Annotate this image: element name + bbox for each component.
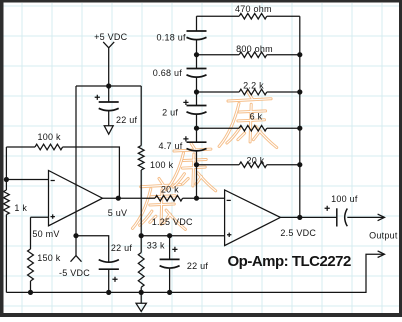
svg-text:Output: Output [369, 231, 398, 241]
capacitor C7 4.7uf [187, 141, 207, 143]
U2 plus label [227, 233, 231, 237]
node U1 output [116, 196, 121, 201]
wire ladder right column [299, 16, 301, 217]
node row 800ohm left [194, 52, 199, 57]
output arrow head (signal) [378, 214, 385, 221]
resistor R6 20k (interstage) [155, 195, 183, 201]
svg-text:1.25 VDC: 1.25 VDC [152, 217, 193, 227]
wire node to R4 [140, 236, 142, 253]
capacitor C6 plus sign [183, 100, 188, 105]
watermark glyph 1 (decorative) [159, 179, 163, 185]
wire row 20 k left [197, 164, 240, 166]
wire C6-C7 [196, 114, 198, 142]
wire row 470 ohm left [197, 15, 240, 17]
output arrow head (return) [378, 251, 385, 258]
wire U1 noninverting input [31, 217, 49, 249]
capacitor C3 plus sign [172, 247, 177, 252]
wire C3 to bottom rail [169, 269, 171, 293]
wire C5-C6 [196, 77, 198, 105]
wire to C3 [169, 236, 171, 260]
ground (top, near C1) [104, 126, 113, 135]
svg-text:22 uf: 22 uf [187, 261, 209, 271]
node C3 branch [167, 233, 172, 238]
node ladder right column [297, 126, 302, 131]
capacitor C8 100uf (horizontal) [336, 208, 338, 226]
wire +5V rail [76, 85, 141, 87]
wire R3 to 1.25V node [140, 170, 142, 236]
svg-text:1 k: 1 k [14, 203, 27, 213]
wire row 800 ohm right [267, 54, 300, 56]
wire 100k feedback top [6, 146, 35, 148]
wire C8 to output arrow [347, 216, 384, 218]
wire R6 to U2 inverting input [183, 197, 225, 199]
node ladder right column [297, 52, 302, 57]
svg-text:22 uf: 22 uf [111, 243, 133, 253]
wire row 470 ohm right [267, 15, 300, 17]
op-amp U1 [49, 171, 103, 226]
resistor R11 20k [239, 162, 267, 168]
svg-text:2.2 k: 2.2 k [243, 80, 264, 90]
capacitor C3 22uf [160, 258, 180, 260]
node bottom rail [139, 290, 144, 295]
svg-text:470 ohm: 470 ohm [235, 4, 272, 14]
U1 minus label [51, 180, 55, 182]
watermark glyph 2 (decorative) [191, 143, 195, 149]
wire U1 output [103, 197, 156, 199]
svg-text:50 mV: 50 mV [32, 229, 59, 239]
wire row 2.2 k right [267, 91, 300, 93]
capacitor C4 0.18uf [187, 30, 207, 32]
capacitor C6 2uf [187, 105, 207, 107]
svg-text:100 uf: 100 uf [331, 194, 358, 204]
wire U2 output [280, 216, 336, 218]
wire C2 to bottom rail [108, 269, 110, 292]
resistor R7 470ohm [239, 13, 267, 19]
wire C7 down to interstage node [196, 151, 198, 198]
wire R4 to bottom rail [140, 287, 142, 292]
svg-text:0.68 uf: 0.68 uf [153, 68, 183, 78]
wire R5 to bottom rail [30, 281, 32, 292]
-5V supply symbol [71, 236, 82, 262]
wire row 20 k right [267, 164, 300, 166]
wire C4-C5 [196, 40, 198, 69]
node bottom rail [167, 290, 172, 295]
svg-text:20 k: 20 k [161, 184, 179, 194]
capacitor C2 plus sign [112, 277, 117, 282]
wire to op-amp U1 inverting input [6, 179, 48, 181]
capacitor C2 22uf (curve on top) [99, 268, 119, 270]
wire row 6 k right [267, 127, 300, 129]
node ladder at U2 inverting input [194, 196, 199, 201]
resistor R9 2.2k [239, 89, 267, 95]
svg-text:800 ohm: 800 ohm [236, 44, 273, 54]
resistor R2 100k (feedback) [35, 144, 63, 150]
svg-text:+5 VDC: +5 VDC [94, 32, 128, 42]
U2 minus label [227, 199, 231, 201]
node V- pin [73, 233, 78, 238]
capacitor C5 0.68uf [187, 68, 207, 70]
node row 6k left [194, 126, 199, 131]
resistor R3 100k (vertical) [138, 146, 144, 170]
svg-text:Op-Amp: TLC2272: Op-Amp: TLC2272 [228, 253, 352, 270]
resistor R4 33k (vertical) [138, 253, 144, 288]
ground (bottom) [136, 303, 146, 311]
node ladder right column [297, 162, 302, 167]
wire C1 to ground [108, 111, 110, 126]
watermark glyph 3 (decorative) [248, 92, 252, 99]
wire 1.25V node to U2 noninverting input [141, 235, 224, 237]
wire V+ supply drop to op-amp U1 [75, 86, 77, 236]
svg-text:0.18 uf: 0.18 uf [157, 32, 187, 42]
wire rail right drop [140, 86, 142, 146]
resistor R5 150k (vertical) [28, 249, 34, 281]
capacitor C8 100uf plus sign [325, 206, 330, 211]
svg-text:100 k: 100 k [37, 132, 61, 142]
wire ground stub [140, 292, 142, 303]
svg-text:33 k: 33 k [147, 241, 165, 251]
svg-text:5 uV: 5 uV [108, 208, 128, 218]
node row 20k left [194, 162, 199, 167]
capacitor C7 plus sign [183, 136, 188, 141]
op-amp U2 [225, 190, 281, 246]
node bottom rail [106, 290, 111, 295]
svg-text:20 k: 20 k [246, 156, 264, 166]
svg-text:22 uf: 22 uf [116, 115, 138, 125]
svg-text:150 k: 150 k [37, 253, 61, 263]
capacitor C1 22uf [99, 101, 119, 103]
svg-text:6 k: 6 k [250, 112, 263, 122]
svg-text:2.5 VDC: 2.5 VDC [280, 228, 316, 238]
wire +5V to C1 [108, 86, 110, 102]
wire row 800 ohm left [197, 54, 240, 56]
wire inverting input column [5, 147, 7, 190]
wire row 2.2 k left [197, 91, 240, 93]
resistor R1 1k (vertical) [4, 190, 10, 215]
svg-text:100 k: 100 k [150, 160, 174, 170]
node row 2.2k left [194, 89, 199, 94]
node U2 output [297, 215, 302, 220]
node +5V rail junction [106, 83, 111, 88]
wire feedback to output [63, 147, 120, 198]
wire bottom rail [6, 254, 384, 292]
node 1.25V at divider [139, 233, 144, 238]
node inverting input [4, 177, 9, 182]
wire ladder left column top [196, 16, 198, 31]
U1 plus label [51, 214, 55, 218]
+5V supply symbol [103, 42, 114, 86]
svg-text:2 uf: 2 uf [162, 107, 178, 117]
node ladder right column [297, 89, 302, 94]
wire R1 to bottom rail [5, 215, 7, 293]
svg-text:-5 VDC: -5 VDC [59, 268, 90, 278]
wire V- to C2 [76, 236, 109, 262]
svg-text:4.7 uf: 4.7 uf [158, 141, 182, 151]
resistor R10 6k [239, 125, 267, 131]
capacitor C1 22uf plus sign [95, 95, 100, 100]
resistor R8 800ohm [239, 52, 267, 58]
wire row 6 k left [197, 127, 240, 129]
node bottom rail [28, 290, 33, 295]
